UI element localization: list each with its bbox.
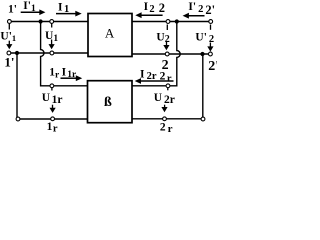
svg-text:I2: I2 <box>144 1 155 15</box>
svg-text:2r: 2r <box>160 121 173 135</box>
svg-text:2': 2' <box>205 3 215 17</box>
svg-text:U'2: U'2 <box>195 31 214 45</box>
svg-text:I1: I1 <box>58 1 69 15</box>
svg-text:I1r: I1r <box>62 66 77 80</box>
svg-text:U2r: U2r <box>154 92 175 106</box>
svg-text:1': 1' <box>4 54 14 69</box>
svg-text:2: 2 <box>159 1 165 15</box>
svg-text:I2r: I2r <box>140 68 157 82</box>
svg-text:1': 1' <box>8 3 17 15</box>
svg-text:ß: ß <box>104 95 112 110</box>
svg-text:A: A <box>105 26 115 41</box>
svg-text:1r: 1r <box>49 67 60 81</box>
svg-text:U1: U1 <box>45 30 58 44</box>
svg-text:U2: U2 <box>156 31 169 45</box>
svg-text:U1r: U1r <box>42 92 63 106</box>
svg-text:U'1: U'1 <box>0 31 16 44</box>
svg-text:I'2: I'2 <box>188 1 203 15</box>
svg-text:2': 2' <box>208 59 217 74</box>
svg-text:I'1: I'1 <box>23 0 36 14</box>
svg-text:1r: 1r <box>47 121 58 135</box>
